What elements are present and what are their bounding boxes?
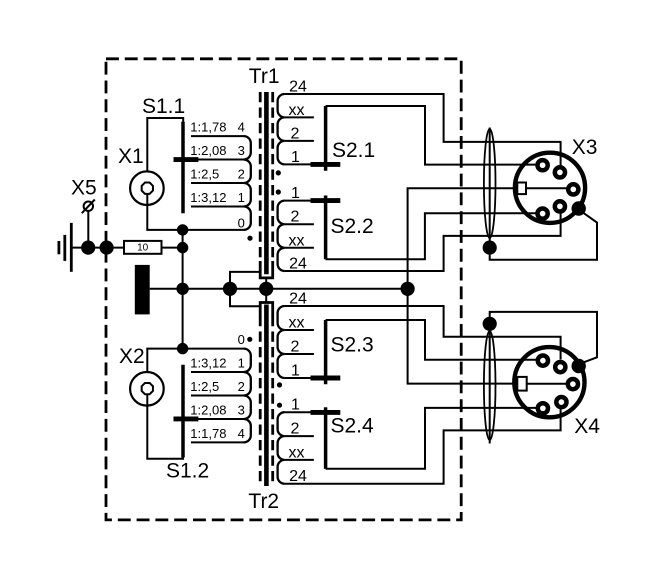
Tr1 phase dot primary <box>247 236 252 241</box>
Tr2 primary tap 0 wire <box>180 348 245 350</box>
Tr2 primary tap 2 wire <box>191 395 245 397</box>
svg-text:1: 1 <box>238 356 245 371</box>
ratio label 1:2,08 3 (Tr2) <box>190 402 245 417</box>
cable screen ellipse X4 <box>484 327 496 444</box>
node ground/X5 junction <box>81 241 95 255</box>
svg-text:S1.2: S1.2 <box>166 460 209 483</box>
svg-text:S2.3: S2.3 <box>331 334 374 357</box>
transformer Tr1 primary winding <box>244 136 251 230</box>
cable screen ellipse X3 <box>484 128 496 245</box>
wire resistor to node <box>162 247 183 249</box>
wire Tr2 24 top to X4 pin2 <box>285 306 561 360</box>
Tr2 G3 tap 1 wire <box>285 377 312 379</box>
svg-text:3: 3 <box>238 143 245 158</box>
Tr1 primary tap 0 wire <box>180 229 245 231</box>
svg-text:1:1,78: 1:1,78 <box>190 120 226 135</box>
svg-text:1:2,08: 1:2,08 <box>190 402 226 417</box>
svg-text:24: 24 <box>289 468 307 485</box>
Tr1 primary tap 2 wire <box>191 182 245 184</box>
wire Tr1 screen stub to bus <box>265 278 267 285</box>
svg-text:xx: xx <box>289 315 305 332</box>
wire Tr2 24 bottom to X4 pin5 <box>285 406 561 484</box>
Tr1 primary tap 1 wire <box>191 205 245 207</box>
switch S1.1 wiper bar <box>181 122 185 214</box>
switch S2.3 wiper bar <box>324 320 328 384</box>
wire cable screen to X4 shell <box>490 312 597 363</box>
terminal X5 <box>82 200 95 214</box>
screened enclosure dashed box <box>106 59 461 520</box>
svg-text:4: 4 <box>238 426 245 441</box>
wire S2.3 wiper out to X4 pin1 <box>326 320 536 360</box>
svg-text:X5: X5 <box>71 177 97 200</box>
node box entry junction <box>100 241 114 255</box>
ratio label 1:2,08 3 <box>190 143 245 158</box>
svg-text:2: 2 <box>238 167 245 182</box>
svg-text:1:3,12: 1:3,12 <box>190 356 226 371</box>
svg-text:2: 2 <box>291 339 300 356</box>
svg-text:1: 1 <box>291 363 300 380</box>
Tr1 G1 tap xx wire <box>285 116 314 118</box>
svg-text:S2.2: S2.2 <box>331 215 374 238</box>
connector X1 <box>130 171 164 205</box>
Tr1 primary tap 3 wire <box>191 159 245 161</box>
wire screen junction to Tr2 screen <box>230 289 259 307</box>
Tr1 G2 tap 1 wire <box>285 200 312 202</box>
Tr2 primary tap 3 wire <box>191 418 245 420</box>
svg-text:1:1,78: 1:1,78 <box>190 426 226 441</box>
svg-text:24: 24 <box>289 256 307 273</box>
svg-text:4: 4 <box>238 120 245 135</box>
svg-text:2: 2 <box>238 379 245 394</box>
switch S1.2 wiper bar <box>181 365 185 458</box>
ratio label 1:1,78 4 <box>190 120 245 135</box>
svg-text:xx: xx <box>289 232 305 249</box>
svg-text:0: 0 <box>238 332 245 347</box>
wire screen junction to Tr1 screen <box>230 272 259 289</box>
svg-text:1: 1 <box>291 149 300 166</box>
Tr2 G4 tap 1 wire <box>285 411 312 413</box>
switch S2.1 wiper bar <box>324 106 328 171</box>
transformer Tr2 secondary winding group 3 <box>278 306 285 378</box>
svg-text:0: 0 <box>238 215 245 230</box>
Tr2 G4 tap 2 wire <box>285 435 314 437</box>
wire X2 shell to tap 0 node <box>147 349 180 373</box>
Tr1 secondary phase dots <box>276 170 281 175</box>
switch S2.2 crossbar <box>311 198 341 203</box>
Tr1 G2 tap 2 wire <box>285 223 314 225</box>
transformer Tr2 secondary winding group 4 <box>278 412 285 484</box>
ratio label 1:3,12 1 <box>190 190 245 205</box>
svg-text:X1: X1 <box>118 145 144 168</box>
wire cable screen to X3 shell <box>490 211 597 260</box>
wire ground bus to resistor <box>71 247 124 249</box>
svg-text:3: 3 <box>238 402 245 417</box>
svg-text:X4: X4 <box>574 415 600 438</box>
Tr1 G1 tap 2 wire <box>285 140 314 142</box>
transformer Tr1 secondary winding group 1 <box>278 94 285 164</box>
switch S2.4 wiper bar <box>324 407 328 469</box>
Tr2 screen U connection <box>260 303 273 317</box>
switch S2.2 wiper bar <box>324 196 328 260</box>
svg-text:1:3,12: 1:3,12 <box>190 190 226 205</box>
wire Tr1 24 bottom to X3 pin5 <box>285 213 561 271</box>
ratio label 1:1,78 4 (Tr2) <box>190 426 245 441</box>
wire center ground bus <box>150 288 408 290</box>
Tr1 G2 tap xx wire <box>285 247 314 249</box>
Tr2 core center bar <box>264 305 269 487</box>
svg-text:xx: xx <box>289 444 305 461</box>
svg-text:2: 2 <box>291 209 300 226</box>
Tr2 primary tap 4 wire <box>191 441 245 443</box>
node center bus X1 column <box>176 283 188 295</box>
connector X4 <box>514 347 586 417</box>
wire S2.4 wiper out to X4 pin4 <box>326 408 536 469</box>
svg-text:2: 2 <box>291 125 300 142</box>
Tr1 core dashed lines <box>260 92 273 262</box>
switch S1.1 selected contact crossbar <box>174 157 199 162</box>
node cable screen X3 <box>483 241 497 255</box>
transformer Tr2 primary winding <box>244 349 251 443</box>
Tr2 G3 tap 2 wire <box>285 353 314 355</box>
node resistor junction <box>177 242 188 253</box>
svg-text:1:2,5: 1:2,5 <box>190 379 219 394</box>
Tr1 G1 tap 1 wire <box>285 163 312 165</box>
switch S2.4 crossbar <box>311 410 341 415</box>
svg-text:1:2,08: 1:2,08 <box>190 143 226 158</box>
wire X1 shell to S1.1 wiper <box>147 118 183 172</box>
wire X2 pin to S1.2 wiper <box>147 395 183 459</box>
wire Tr2 screen stub to bus <box>265 293 267 303</box>
node cable screen X4 <box>483 317 497 331</box>
transformer Tr1 secondary winding group 2 <box>278 201 285 271</box>
ratio label 1:2,5 2 <box>190 167 245 182</box>
resistor 10 <box>124 241 162 254</box>
svg-text:1: 1 <box>238 190 245 205</box>
svg-text:xx: xx <box>289 102 305 119</box>
switch S1.2 selected contact crossbar <box>174 417 199 422</box>
node tap0/X1 junction <box>177 224 188 235</box>
connector X2 <box>130 372 164 406</box>
node center bus transformer screens <box>259 282 273 296</box>
ratio label 1:2,5 2 (Tr2) <box>190 379 245 394</box>
svg-text:1:2,5: 1:2,5 <box>190 167 219 182</box>
ratio label 1:3,12 1 (Tr2) <box>190 356 245 371</box>
wire S2.1 wiper out to X3 pin1 <box>326 106 536 165</box>
wire S2.2 wiper out to X3 pin4 <box>326 213 536 259</box>
node center bus screen wire <box>223 282 237 296</box>
Tr2 secondary phase dots <box>277 382 282 387</box>
ground <box>59 223 71 272</box>
wire X1 column vertical <box>182 230 184 349</box>
node Tr2 tap0 junction <box>177 343 188 354</box>
svg-text:Tr2: Tr2 <box>248 490 279 513</box>
wire X5 to ground bus <box>87 211 89 244</box>
Tr2 G4 tap xx wire <box>285 459 314 461</box>
wire X1 pin to tap 0 node <box>147 194 180 230</box>
svg-text:10: 10 <box>137 243 149 254</box>
Tr1 core center bar <box>264 92 269 274</box>
Tr2 primary tap 1 wire <box>191 371 245 373</box>
node center bus notch column <box>401 282 415 296</box>
svg-text:Tr1: Tr1 <box>249 65 280 88</box>
svg-text:1: 1 <box>291 397 300 414</box>
Tr2 core dashed lines <box>260 316 273 486</box>
wire X3 notch to ground bus <box>408 188 518 383</box>
svg-text:S1.1: S1.1 <box>142 95 185 118</box>
Tr2 G3 tap xx wire <box>285 329 314 331</box>
svg-text:X3: X3 <box>572 136 598 159</box>
Tr2 phase dot primary <box>247 337 252 342</box>
Tr1 primary tap 4 wire <box>191 135 245 137</box>
svg-text:X2: X2 <box>119 345 145 368</box>
switch S2.1 crossbar <box>311 162 341 167</box>
svg-text:2: 2 <box>291 421 300 438</box>
switch S2.3 crossbar <box>311 376 341 381</box>
wire Tr1 24 top to X3 pin2 <box>285 94 561 166</box>
connector X3 <box>515 153 586 223</box>
screen plate bar <box>135 265 150 315</box>
svg-text:1: 1 <box>291 185 300 202</box>
svg-text:S2.1: S2.1 <box>332 139 375 162</box>
Tr1 screen U connection <box>260 261 273 278</box>
svg-text:S2.4: S2.4 <box>331 415 375 438</box>
